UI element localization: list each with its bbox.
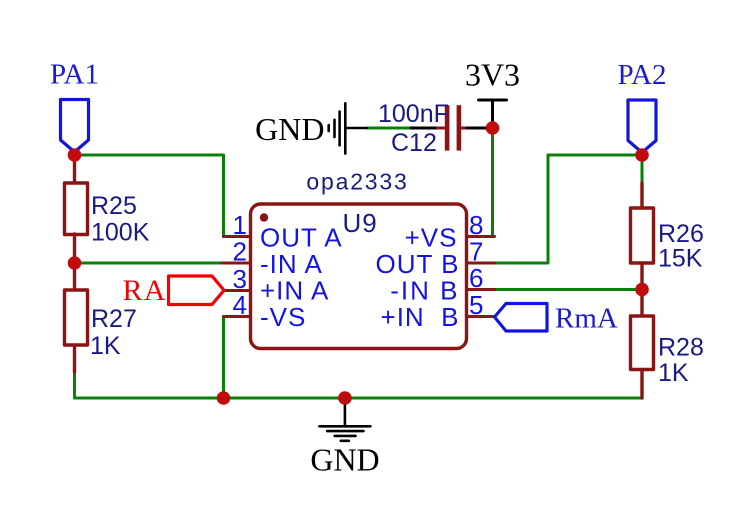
svg-text:1K: 1K [90, 332, 121, 360]
pin 4 [224, 315, 251, 318]
svg-text:OUT A: OUT A [260, 223, 343, 253]
svg-text:7: 7 [469, 237, 483, 267]
ground symbol GND (left, rotated) [329, 103, 367, 153]
svg-text:100K: 100K [91, 219, 150, 247]
wire bottom ground rail [75, 372, 643, 398]
resistor R25 [65, 155, 88, 263]
svg-text:-IN B: -IN B [390, 276, 459, 306]
svg-text:opa2333: opa2333 [306, 169, 408, 195]
svg-text:GND: GND [310, 442, 379, 478]
svg-text:+IN B: +IN B [381, 302, 460, 332]
svg-text:RmA: RmA [555, 303, 618, 335]
svg-text:15K: 15K [658, 245, 703, 273]
svg-text:4: 4 [233, 290, 247, 320]
capacitor C12 [411, 105, 487, 150]
junction right rail pin6 [635, 283, 649, 297]
svg-text:R28: R28 [658, 334, 704, 362]
svg-text:100nF: 100nF [378, 100, 449, 128]
pin 7 [467, 262, 495, 265]
svg-text:3V3: 3V3 [465, 57, 520, 93]
pin 2 [222, 262, 251, 265]
pin 1 [224, 235, 251, 238]
pin 8 [467, 235, 495, 238]
svg-text:2: 2 [233, 237, 247, 267]
wire pin4 to ground rail [222, 317, 225, 399]
svg-text:U9: U9 [343, 208, 378, 238]
wire PA1 to pin1 (net PA1) [75, 155, 224, 237]
flag RA [169, 276, 225, 305]
pin 3 [224, 289, 251, 292]
svg-text:R27: R27 [91, 305, 137, 333]
wire PA2 rail upper green segment [641, 155, 644, 183]
svg-text:PA2: PA2 [618, 59, 667, 91]
resistor R26 [631, 183, 654, 290]
wire PA2 to pin7 [495, 155, 642, 263]
svg-text:+IN A: +IN A [260, 276, 329, 306]
resistor R27 [65, 263, 88, 372]
op-amp U9 opa2333 [251, 204, 467, 349]
junction left rail pin2 [68, 256, 82, 270]
wire cap to 3V3 node [367, 127, 411, 130]
wire 3V3 to pin8 [491, 128, 494, 237]
svg-text:5: 5 [469, 290, 483, 320]
svg-text:C12: C12 [391, 129, 437, 157]
wire left rail pin2 (net A2) [75, 262, 225, 265]
svg-text:RA: RA [123, 274, 167, 307]
svg-text:1K: 1K [658, 359, 689, 387]
flag PA1 [61, 100, 89, 153]
flag RmA [495, 304, 548, 332]
ground symbol GND (bottom) [319, 398, 370, 441]
junction pin4 ground rail [217, 391, 231, 405]
pin 5 [467, 315, 495, 318]
svg-text:-IN A: -IN A [260, 249, 323, 279]
svg-text:R25: R25 [91, 192, 137, 220]
junction GND stem [338, 391, 352, 405]
flag PA2 [628, 100, 656, 153]
resistor R28 [631, 290, 654, 399]
pin 6 [467, 288, 495, 291]
svg-text:PA1: PA1 [50, 59, 99, 91]
wire pin6 to right rail [495, 288, 642, 291]
svg-text:6: 6 [469, 263, 483, 293]
junction 3V3 node [486, 121, 500, 135]
svg-text:8: 8 [469, 210, 483, 240]
junction PA2 [635, 148, 649, 162]
junction PA1 [68, 148, 82, 162]
power symbol 3V3 [479, 100, 507, 128]
svg-text:OUT B: OUT B [376, 249, 460, 279]
pin1 dot marker [260, 213, 268, 221]
svg-text:-VS: -VS [260, 302, 306, 332]
svg-text:+VS: +VS [405, 223, 458, 253]
svg-text:GND: GND [255, 111, 324, 147]
svg-text:1: 1 [233, 210, 247, 240]
